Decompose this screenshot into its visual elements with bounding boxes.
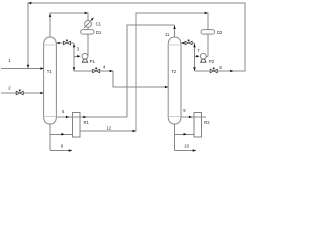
svg-text:D1: D1 [96, 30, 102, 35]
svg-text:T1: T1 [47, 69, 53, 74]
svg-text:R1: R1 [84, 120, 90, 125]
svg-text:R2: R2 [204, 120, 210, 125]
svg-text:P1: P1 [90, 59, 96, 64]
svg-text:10: 10 [184, 144, 189, 149]
svg-text:C1: C1 [96, 21, 102, 26]
svg-text:D2: D2 [217, 30, 223, 35]
svg-text:12: 12 [107, 125, 112, 130]
svg-text:T2: T2 [171, 69, 177, 74]
svg-text:11: 11 [165, 32, 170, 37]
svg-text:P2: P2 [209, 59, 215, 64]
